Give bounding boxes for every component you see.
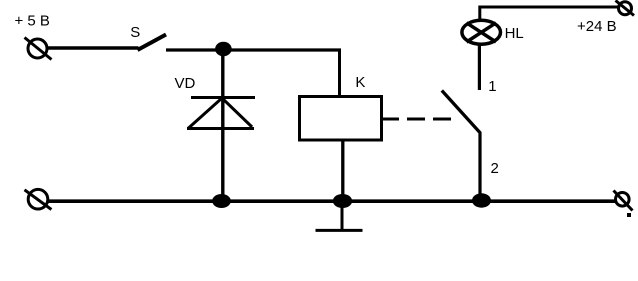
svg-text:S: S — [130, 24, 140, 41]
svg-text:2: 2 — [491, 160, 499, 177]
wire: lamp top up and right to +24V terminal — [480, 7, 618, 19]
ground symbol — [316, 201, 363, 230]
node: ground junction on bottom rail — [333, 194, 352, 208]
svg-text:+24 В: +24 В — [577, 18, 617, 35]
lamp HL (circle with X) — [462, 20, 501, 44]
stray dot (period) bottom right — [627, 213, 631, 217]
terminal +24V (crossed circle, top right) — [616, 1, 635, 16]
relay contact blade (between pins 1 and 2) — [442, 91, 481, 134]
wire: relay coil bottom to ground node — [341, 140, 344, 201]
svg-text:1: 1 — [488, 78, 496, 95]
wire: lamp bottom to contact pin 1 — [478, 45, 481, 90]
wire: corner down to relay coil top — [338, 49, 341, 98]
terminal 0V (crossed circle, bottom right) — [614, 191, 633, 211]
terminal 0V (crossed circle, bottom left) — [25, 189, 52, 209]
node: contact junction on bottom rail — [472, 193, 491, 207]
node: junction of switch wire and diode branch — [215, 42, 232, 56]
svg-text:VD: VD — [175, 75, 196, 92]
wire: switch to relay branch corner (top rail) — [166, 48, 341, 51]
mechanical link: dashed line relay to contact — [381, 118, 452, 121]
terminal +5V (crossed circle, top left) — [25, 38, 52, 60]
wire: contact elbow down to bottom rail (pin 2) — [478, 132, 481, 201]
switch S blade — [138, 35, 167, 51]
node: diode branch junction on bottom rail — [212, 194, 231, 208]
relay coil K (rectangle) — [300, 97, 382, 141]
svg-text:HL: HL — [505, 25, 524, 42]
wire: bottom rail — [47, 199, 616, 203]
svg-text:K: K — [355, 74, 365, 91]
wire: +5V terminal to switch S — [47, 46, 139, 50]
wire: diode branch vertical (junction down to bottom rail) — [221, 50, 224, 201]
svg-text:+ 5 В: + 5 В — [15, 12, 50, 29]
diode VD (cathode bar + triangle) — [187, 98, 255, 129]
